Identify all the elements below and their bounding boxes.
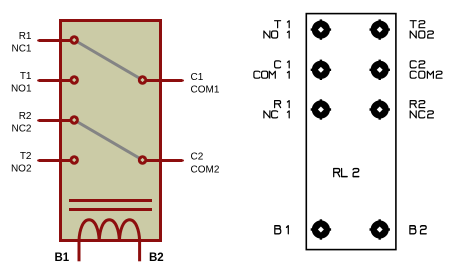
pad label NC2 bbox=[410, 111, 433, 118]
wire C2/COM2 pin bbox=[145, 159, 183, 162]
pad label T2 bbox=[410, 21, 425, 28]
label NC1 bbox=[11, 44, 31, 55]
label R2 bbox=[19, 111, 32, 122]
pin node C2 bbox=[138, 155, 147, 164]
label C1 bbox=[191, 72, 204, 83]
coil core line upper bbox=[69, 199, 152, 202]
svg-text:C2: C2 bbox=[191, 152, 204, 163]
pin node R2 bbox=[70, 115, 79, 124]
wire tip left y=160.5 bbox=[37, 160, 39, 162]
label B1 schematic bbox=[55, 252, 70, 264]
label T2 bbox=[20, 151, 32, 162]
svg-text:R2: R2 bbox=[19, 111, 32, 122]
pin node C1 bbox=[138, 75, 147, 84]
svg-text:T2: T2 bbox=[20, 151, 32, 162]
coil terminal wire B2 bbox=[138, 239, 141, 261]
svg-text:B1: B1 bbox=[55, 252, 70, 264]
label R1 bbox=[19, 31, 32, 42]
label NC2 bbox=[11, 124, 31, 135]
pad C1/COM1 bbox=[311, 60, 331, 80]
wire tip left y=80.5 bbox=[37, 80, 39, 82]
relay RL2 schematic body bbox=[61, 21, 161, 241]
label NO1 bbox=[11, 84, 32, 95]
svg-text:T1: T1 bbox=[20, 71, 32, 82]
pad label R1 bbox=[275, 101, 290, 108]
pad label COM2 bbox=[410, 71, 442, 78]
pad label NC1 bbox=[264, 111, 289, 118]
wire R2/NC2 pin bbox=[39, 119, 73, 122]
pad R1/NC1 bbox=[311, 99, 331, 119]
pad label NO1 bbox=[264, 31, 289, 38]
label T1 bbox=[20, 71, 32, 82]
wire T2/NO2 pin bbox=[39, 159, 73, 162]
pad label COM1 bbox=[254, 71, 289, 78]
svg-text:NC1: NC1 bbox=[11, 44, 31, 55]
pad T1/NO1 bbox=[311, 19, 331, 39]
reference designator RL2 bbox=[334, 169, 359, 177]
pin node R1 bbox=[70, 35, 79, 44]
pad label NO2 bbox=[410, 31, 433, 38]
pad label R2 bbox=[410, 101, 425, 108]
footprint RL2 outline bbox=[306, 14, 396, 250]
svg-text:R1: R1 bbox=[19, 31, 32, 42]
svg-text:C1: C1 bbox=[191, 72, 204, 83]
coil winding L1 bbox=[79, 220, 140, 241]
wire tip right y=160.5 bbox=[182, 160, 184, 162]
wire tip right y=80.5 bbox=[182, 80, 184, 82]
pad label C2 bbox=[410, 61, 425, 68]
coil terminal wire B1 bbox=[78, 239, 81, 261]
svg-text:NC2: NC2 bbox=[11, 124, 31, 135]
pad B2 bbox=[370, 219, 390, 239]
label COM1 bbox=[191, 85, 220, 96]
pad label C1 bbox=[275, 61, 290, 68]
label NO2 bbox=[11, 164, 32, 175]
wire C1/COM1 pin bbox=[145, 79, 183, 82]
wire tip left y=120.5 bbox=[37, 120, 39, 122]
svg-text:B2: B2 bbox=[149, 252, 164, 264]
coil core line lower bbox=[69, 208, 152, 211]
armature contact R2-C2 bbox=[74, 120, 142, 160]
wire T1/NO1 pin bbox=[39, 79, 73, 82]
pad label T1 bbox=[275, 21, 290, 28]
label B2 schematic bbox=[149, 252, 164, 264]
pad C2/COM2 bbox=[370, 60, 390, 80]
svg-text:NO1: NO1 bbox=[11, 84, 32, 95]
pad label B2 bbox=[410, 226, 426, 234]
svg-text:COM1: COM1 bbox=[191, 85, 220, 96]
pad T2/NO2 bbox=[370, 19, 390, 39]
pad label B1 bbox=[275, 226, 289, 234]
wire R1/NC1 pin bbox=[39, 39, 73, 42]
label C2 bbox=[191, 152, 204, 163]
svg-text:COM2: COM2 bbox=[191, 164, 220, 175]
pad B1 bbox=[311, 219, 331, 239]
armature contact R1-C1 bbox=[74, 40, 142, 80]
pin node T2 bbox=[70, 155, 79, 164]
wire tip left y=40.5 bbox=[37, 40, 39, 42]
svg-text:NO2: NO2 bbox=[11, 164, 32, 175]
pin node T1 bbox=[70, 75, 79, 84]
label COM2 bbox=[191, 164, 220, 175]
pad R2/NC2 bbox=[370, 99, 390, 119]
